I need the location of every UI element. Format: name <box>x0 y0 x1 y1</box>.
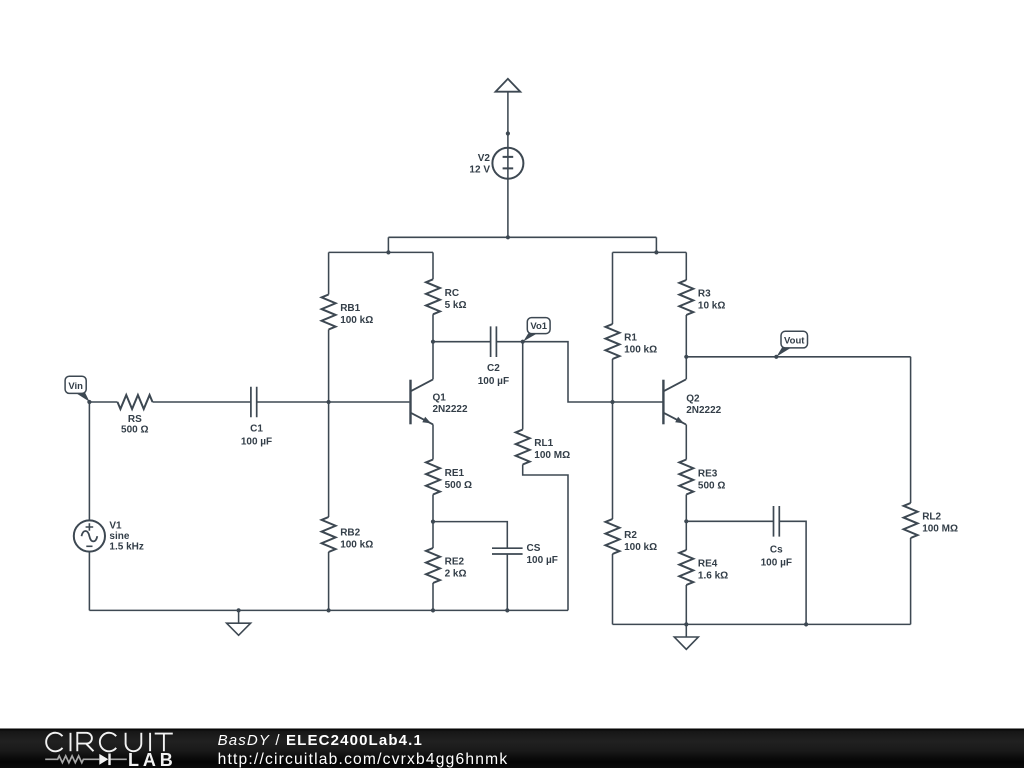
wire ground2 stub <box>685 624 687 637</box>
wire R3 top lead <box>685 252 687 280</box>
wire RE4 to bus <box>685 585 687 624</box>
svg-text:R2: R2 <box>624 530 637 541</box>
node flag Vout <box>777 331 808 356</box>
wire RL1 bottom jog <box>523 465 568 611</box>
wire C2 to Vo1 node <box>496 341 522 343</box>
junction base node RB <box>327 400 331 404</box>
svg-text:Vin: Vin <box>68 381 83 392</box>
capacitor C1 100uF <box>241 387 272 448</box>
wire top supply bus <box>388 236 656 238</box>
svg-text:R3: R3 <box>698 288 711 299</box>
ground symbol stage1 <box>227 623 251 635</box>
wire Q2 emitter to RE3 <box>685 424 687 459</box>
capacitor CS 100uF <box>492 543 558 566</box>
resistor RB2 100k <box>322 517 374 552</box>
svg-text:RE4: RE4 <box>698 558 718 569</box>
svg-text:RB1: RB1 <box>340 303 360 314</box>
svg-text:100 µF: 100 µF <box>527 555 558 566</box>
svg-text:Q2: Q2 <box>686 394 700 405</box>
wire V2 branch <box>507 92 509 238</box>
junction stage2 rail <box>654 250 658 254</box>
resistor RE4 1.6k <box>679 550 728 585</box>
transistor Q1 2N2222 <box>411 379 468 424</box>
junction Q1 collector node <box>431 340 435 344</box>
junction stage1 rail <box>386 250 390 254</box>
svg-text:Q1: Q1 <box>433 392 447 403</box>
wire R2 bottom lead <box>612 554 614 624</box>
svg-text:100 MΩ: 100 MΩ <box>922 524 958 535</box>
wire stage2 ground bus <box>613 623 911 625</box>
wire Q1 collector <box>432 342 434 380</box>
svg-text:1.6 kΩ: 1.6 kΩ <box>698 570 728 581</box>
svg-text:100 kΩ: 100 kΩ <box>340 315 373 326</box>
wire stage2 top rail <box>613 251 687 253</box>
wire V1 to ground bus <box>88 552 90 611</box>
junction ground1 tap <box>237 608 241 612</box>
wire Vo1 node to Q2 base <box>523 342 664 402</box>
svg-text:RS: RS <box>128 414 142 425</box>
svg-text:RL2: RL2 <box>922 512 941 523</box>
svg-text:2N2222: 2N2222 <box>433 404 468 415</box>
junction V2 pin <box>506 131 510 135</box>
svg-text:C1: C1 <box>250 424 263 435</box>
svg-text:10 kΩ: 10 kΩ <box>698 300 725 311</box>
wire Vin node to RS <box>89 401 117 403</box>
wire R1 top lead <box>612 252 614 324</box>
capacitor Cs 100uF <box>761 506 792 568</box>
wire node to RE2 <box>432 522 434 548</box>
wire RC bottom lead <box>432 314 434 341</box>
resistor RC 5k <box>426 279 467 314</box>
wire stage1 ground bus <box>89 609 568 611</box>
junction RE1 RE2 CS node <box>431 520 435 524</box>
wire supply drop stage2 <box>655 237 657 252</box>
voltage source V2 12V <box>469 148 523 179</box>
resistor RL2 100M <box>904 503 958 538</box>
wire R2 top lead <box>612 402 614 519</box>
wire Q1 emitter to RE1 <box>432 424 434 459</box>
resistor RE1 500 <box>426 460 472 495</box>
svg-text:100 kΩ: 100 kΩ <box>624 542 657 553</box>
junction Q2 base node <box>610 400 614 404</box>
capacitor C2 100uF <box>478 326 509 387</box>
svg-text:500 Ω: 500 Ω <box>445 480 472 491</box>
junction Q2 collector node <box>684 355 688 359</box>
resistor RL1 100M <box>516 430 570 465</box>
wire RL2 top lead <box>910 357 912 503</box>
resistor R2 100k <box>606 519 658 554</box>
svg-text:RC: RC <box>445 288 459 299</box>
svg-text:C2: C2 <box>487 363 500 374</box>
svg-text:RL1: RL1 <box>534 438 553 449</box>
transistor Q2 2N2222 <box>663 379 721 424</box>
junction Vin node <box>87 400 91 404</box>
CircuitLab logo CIRCUIT <box>46 733 173 752</box>
svg-text:sine: sine <box>109 531 129 542</box>
svg-text:100 MΩ: 100 MΩ <box>534 450 570 461</box>
svg-text:1.5 kHz: 1.5 kHz <box>109 542 143 553</box>
junction RE2 at bus <box>431 608 435 612</box>
resistor RE3 500 <box>679 460 725 495</box>
svg-text:V1: V1 <box>109 521 122 532</box>
junction Vo1 node <box>521 340 525 344</box>
svg-text:12 V: 12 V <box>469 164 490 175</box>
svg-text:RE1: RE1 <box>445 468 465 479</box>
wire node to CS <box>433 522 507 549</box>
wire R1 bottom lead <box>612 359 614 402</box>
resistor RB1 100k <box>322 295 374 330</box>
power supply arrow VDD <box>496 79 521 92</box>
svg-text:Vo1: Vo1 <box>530 321 547 332</box>
svg-text:100 µF: 100 µF <box>478 376 509 387</box>
wire RC top lead <box>432 252 434 279</box>
wire RB1 bottom lead <box>328 330 330 403</box>
wire RL2 bottom lead <box>910 538 912 624</box>
svg-text:2 kΩ: 2 kΩ <box>445 569 467 580</box>
svg-text:RE2: RE2 <box>445 557 465 568</box>
node flag Vo1 <box>523 318 550 342</box>
junction RE4 ground2 at bus <box>684 622 688 626</box>
svg-text:100 kΩ: 100 kΩ <box>624 345 657 356</box>
svg-text:R1: R1 <box>624 333 637 344</box>
svg-text:500 Ω: 500 Ω <box>698 480 725 491</box>
wire Cs to bus <box>779 521 806 624</box>
wire supply drop stage1 <box>387 237 389 252</box>
svg-text:Cs: Cs <box>770 545 783 556</box>
junction RE3 RE4 Cs node <box>684 519 688 523</box>
wire CS to bus <box>506 554 508 610</box>
wire RB1 top lead <box>328 252 330 294</box>
svg-text:RE3: RE3 <box>698 468 718 479</box>
wire RE1 to node <box>432 495 434 522</box>
wire RE2 to bus <box>432 583 434 610</box>
wire stage1 top rail <box>329 251 433 253</box>
svg-text:100 kΩ: 100 kΩ <box>340 540 373 551</box>
wire node to RE4 <box>685 521 687 550</box>
ground symbol stage2 <box>674 637 698 649</box>
svg-text:BasDY / ELEC2400Lab4.1: BasDY / ELEC2400Lab4.1 <box>218 732 423 749</box>
svg-text:2N2222: 2N2222 <box>686 405 721 416</box>
svg-text:5 kΩ: 5 kΩ <box>445 300 467 311</box>
wire RE3 to node <box>685 495 687 522</box>
svg-text:RB2: RB2 <box>340 528 360 539</box>
svg-text:LAB: LAB <box>128 750 177 768</box>
svg-text:http://circuitlab.com/cvrxb4gg: http://circuitlab.com/cvrxb4gg6hnmk <box>218 751 509 768</box>
svg-text:500 Ω: 500 Ω <box>121 425 148 436</box>
junction RB2 at bus <box>327 608 331 612</box>
logo resistor-diode symbol <box>45 756 127 763</box>
resistor RS 500 <box>118 395 153 436</box>
resistor R3 10k <box>679 280 725 315</box>
wire RS to C1 <box>153 401 251 403</box>
wire RL1 top lead <box>522 342 524 430</box>
wire Vin node down to V1 <box>88 402 90 520</box>
wire R3 bottom lead <box>685 315 687 357</box>
junction CS at bus <box>505 608 509 612</box>
wire RB2 top lead <box>328 402 330 517</box>
wire ground1 stub <box>238 610 240 623</box>
junction Vout node <box>774 355 778 359</box>
resistor R1 100k <box>606 324 658 359</box>
logo diode <box>99 754 108 765</box>
svg-text:100 µF: 100 µF <box>241 437 272 448</box>
svg-text:CS: CS <box>527 543 541 554</box>
junction V2 at supply bus <box>506 235 510 239</box>
wire C1 to Q1 base <box>257 401 410 403</box>
svg-text:100 µF: 100 µF <box>761 557 792 568</box>
wire node to Cs <box>686 520 773 522</box>
voltage source V1 sine <box>74 520 144 552</box>
svg-text:Vout: Vout <box>784 335 805 346</box>
junction Cs at bus <box>804 622 808 626</box>
wire RB2 bottom lead <box>328 552 330 610</box>
node flag Vin <box>65 376 90 402</box>
resistor RE2 2k <box>426 548 467 583</box>
svg-text:V2: V2 <box>478 153 491 164</box>
wire collector node to C2 <box>433 341 491 343</box>
wire Vout net <box>686 356 910 358</box>
wire Q2 collector <box>685 357 687 380</box>
